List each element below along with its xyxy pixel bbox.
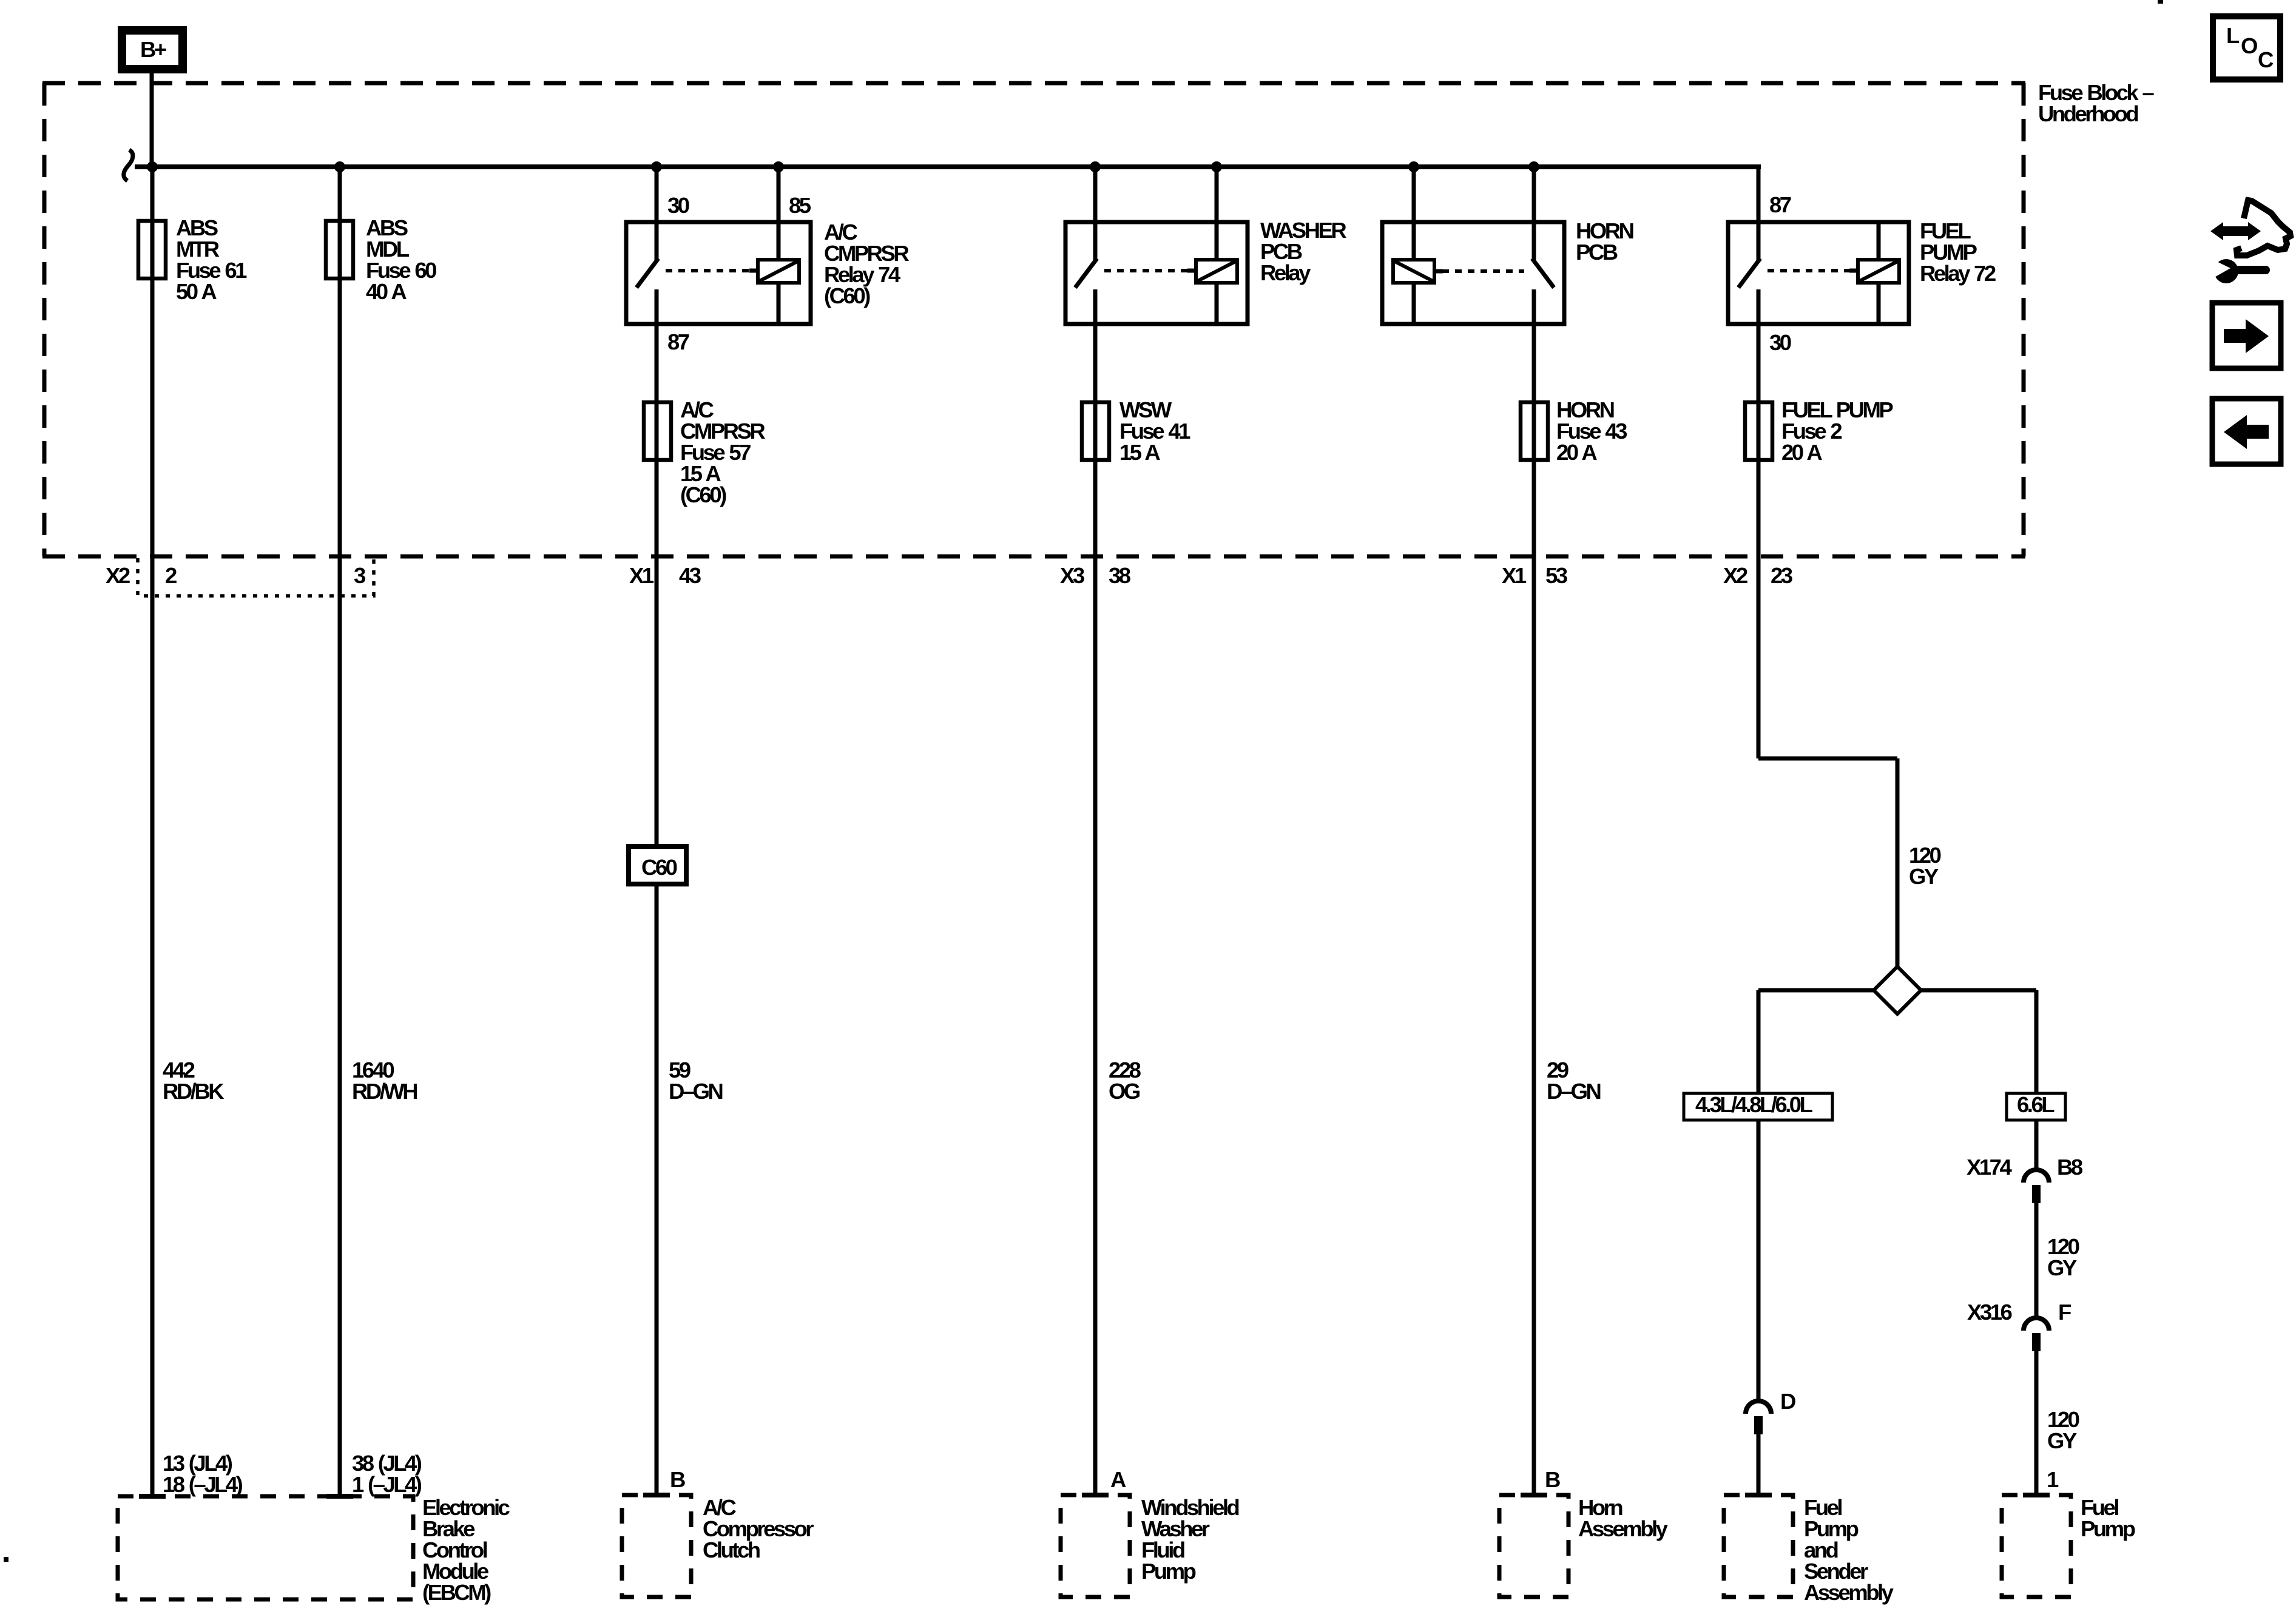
svg-text:(C60): (C60) [680,482,726,507]
svg-text:2: 2 [165,563,177,588]
svg-text:OG: OG [1109,1079,1140,1104]
svg-text:O: O [2241,33,2257,58]
svg-text:53: 53 [1545,563,1567,588]
svg-text:X1: X1 [1502,563,1527,588]
svg-text:GY: GY [1909,864,1939,889]
svg-text:15 A: 15 A [1119,440,1160,465]
svg-text:Underhood: Underhood [2038,101,2138,126]
svg-text:23: 23 [1771,563,1792,588]
svg-text:Pump: Pump [2081,1516,2135,1541]
svg-text:Relay: Relay [1260,260,1311,285]
svg-text:4.3L/4.8L/6.0L: 4.3L/4.8L/6.0L [1695,1092,1813,1117]
svg-text:B8: B8 [2057,1155,2083,1180]
svg-text:RD/WH: RD/WH [352,1079,417,1104]
svg-text:(C60): (C60) [824,283,870,308]
svg-text:X2: X2 [106,563,130,588]
svg-text:A: A [1110,1467,1126,1492]
svg-text:X316: X316 [1967,1300,2011,1325]
svg-text:L: L [2226,23,2240,48]
svg-text:C60: C60 [641,855,677,880]
svg-text:40 A: 40 A [366,279,407,304]
svg-text:1 (–JL4): 1 (–JL4) [352,1472,422,1497]
svg-text:X3: X3 [1060,563,1084,588]
svg-text:D–GN: D–GN [669,1079,723,1104]
svg-text:D: D [1780,1389,1795,1414]
svg-text:85: 85 [789,193,811,218]
svg-text:X1: X1 [629,563,654,588]
svg-text:87: 87 [667,329,689,354]
svg-text:X2: X2 [1723,563,1747,588]
svg-text:20 A: 20 A [1556,440,1597,465]
svg-text:PCB: PCB [1576,240,1618,265]
svg-text:GY: GY [2047,1255,2077,1280]
svg-text:Pump: Pump [1141,1559,1196,1584]
svg-text:RD/BK: RD/BK [163,1079,225,1104]
svg-text:Assembly: Assembly [1804,1580,1894,1605]
svg-text:30: 30 [667,193,689,218]
svg-text:20 A: 20 A [1781,440,1822,465]
svg-text:B: B [670,1467,685,1492]
svg-text:Clutch: Clutch [703,1538,760,1562]
svg-text:3: 3 [354,563,365,588]
svg-text:18 (–JL4): 18 (–JL4) [163,1472,243,1497]
svg-text:38: 38 [1109,563,1131,588]
svg-text:GY: GY [2047,1428,2077,1453]
svg-text:(EBCM): (EBCM) [422,1580,491,1605]
svg-text:6.6L: 6.6L [2017,1092,2055,1117]
svg-text:Relay 72: Relay 72 [1920,261,1996,286]
svg-text:B: B [1545,1467,1560,1492]
svg-text:Assembly: Assembly [1578,1516,1669,1541]
svg-text:30: 30 [1769,330,1791,355]
svg-text:43: 43 [679,563,701,588]
svg-text:X174: X174 [1967,1155,2012,1180]
svg-text:D–GN: D–GN [1547,1079,1601,1104]
svg-text:F: F [2058,1300,2071,1325]
svg-text:C: C [2258,47,2274,72]
svg-text:50 A: 50 A [176,279,217,304]
svg-text:B+: B+ [140,37,166,62]
svg-text:87: 87 [1769,192,1791,217]
